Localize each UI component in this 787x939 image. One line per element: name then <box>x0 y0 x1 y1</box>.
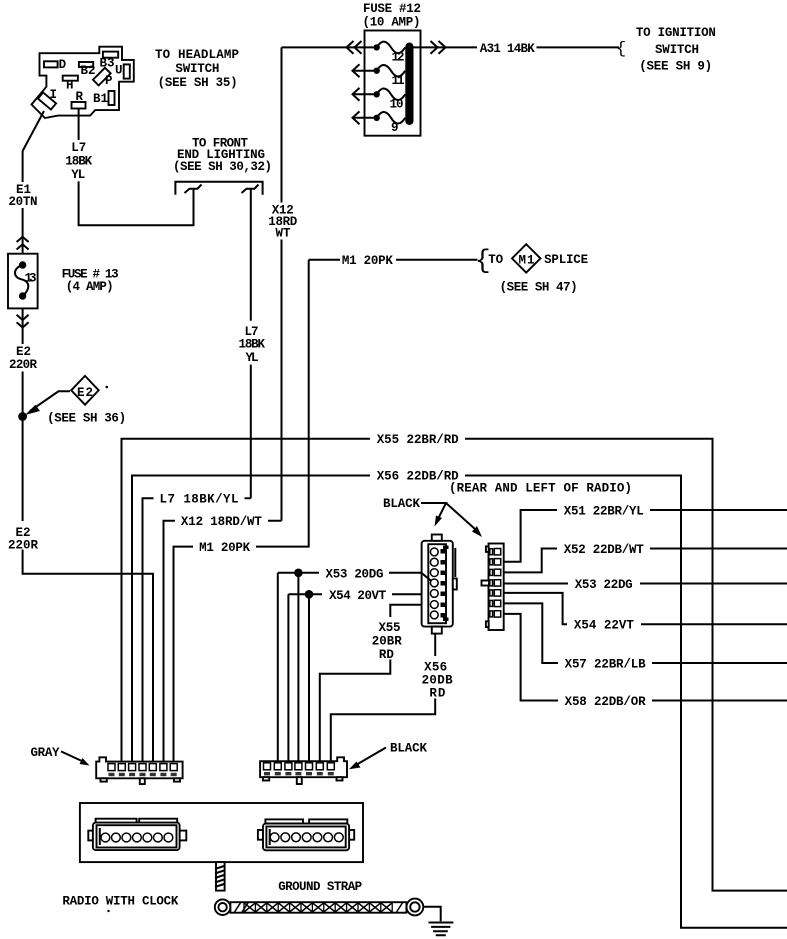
wire X55 22BR/RD net <box>122 439 787 891</box>
junction dot X54 <box>305 590 314 599</box>
headlamp pin R <box>72 90 86 109</box>
splice arrows left of fuse row 12 <box>347 41 362 54</box>
svg-text:SWITCH: SWITCH <box>655 43 699 57</box>
svg-text:M1: M1 <box>519 254 535 268</box>
label (SEE SH 47) <box>500 281 578 295</box>
arrow left of fuse row 10 <box>353 88 360 101</box>
radio right connector face top tabs <box>265 819 347 824</box>
headlamp switch connector body <box>32 47 134 118</box>
svg-text:9: 9 <box>391 121 399 135</box>
arrow BLACK to rear connector <box>446 503 482 537</box>
rear connector top-left notch <box>486 546 489 552</box>
gray connector body <box>96 757 182 778</box>
wire break symbol right <box>242 185 259 194</box>
label M1 20PK lower <box>193 539 256 555</box>
svg-text:X53 22DG: X53 22DG <box>575 578 633 592</box>
svg-text:BLACK: BLACK <box>390 742 427 756</box>
headlamp pin P <box>93 68 113 88</box>
radio right connector face ears <box>258 830 354 840</box>
label A31 14BK <box>480 42 535 56</box>
arrow left of fuse row 9 <box>353 111 360 124</box>
svg-text:WT: WT <box>276 226 291 240</box>
svg-text:SPLICE: SPLICE <box>544 253 588 267</box>
label X54 20VT <box>322 587 392 603</box>
svg-text:12: 12 <box>392 51 405 65</box>
svg-text:(4 AMP): (4 AMP) <box>66 280 114 294</box>
svg-text:TO: TO <box>488 253 503 267</box>
svg-text:E2: E2 <box>16 345 31 359</box>
label L7 18BK YL <box>65 141 92 182</box>
svg-text:L7 18BK/YL: L7 18BK/YL <box>160 493 239 507</box>
wire X57 net <box>504 603 787 663</box>
fuse element 10 <box>377 89 406 112</box>
svg-text:E2: E2 <box>77 386 93 400</box>
label L7 18BK/YL <box>154 491 245 507</box>
center connector side bump <box>453 548 457 590</box>
center connector terminals <box>430 546 448 622</box>
label BLACK bottom <box>390 742 427 756</box>
center connector top tab <box>432 535 442 541</box>
svg-text:X54 22VT: X54 22VT <box>574 619 634 633</box>
svg-text:RD: RD <box>429 686 445 700</box>
fuse block 12 box <box>365 31 421 136</box>
svg-text:X55: X55 <box>379 621 401 635</box>
ground screw <box>215 862 226 891</box>
svg-text:X56 22DB/RD: X56 22DB/RD <box>377 470 459 484</box>
headlamp pin B3 <box>100 52 119 71</box>
wire fuse12 row 10 <box>353 93 377 95</box>
headlamp pin D <box>44 58 67 72</box>
label X53 20DG <box>319 565 389 582</box>
label GRAY <box>31 746 60 760</box>
black connector body <box>260 757 347 777</box>
svg-text:U: U <box>115 64 123 78</box>
splice symbol E2 diamond <box>71 376 99 405</box>
svg-text:H: H <box>66 79 74 93</box>
fuse 13 terminal dot bottom <box>19 292 26 299</box>
headlamp pin U <box>115 64 130 79</box>
radio right connector face cavity <box>266 827 345 848</box>
label BLACK center <box>383 497 420 511</box>
svg-text:FUSE #12: FUSE #12 <box>363 2 421 16</box>
headlamp pin B2 <box>79 62 96 78</box>
svg-text:TO IGNITION: TO IGNITION <box>636 26 716 40</box>
svg-text:20BR: 20BR <box>372 634 402 648</box>
ground strap left eyelet <box>215 899 231 915</box>
arrow BLACK to center connector <box>421 503 446 527</box>
svg-text:18BK: 18BK <box>65 155 92 169</box>
junction dot E2 <box>18 412 27 421</box>
headlamp pin I <box>38 88 57 110</box>
wire X53 net <box>278 573 422 764</box>
label FUSE # 13 (4 AMP) <box>62 268 119 295</box>
label GROUND STRAP <box>278 880 362 894</box>
svg-text:11: 11 <box>392 74 405 88</box>
wire break symbol left <box>185 185 202 194</box>
wire X55 center stub <box>320 605 422 764</box>
stray mark near E2 splice <box>106 386 109 389</box>
svg-text:M1 20PK: M1 20PK <box>342 254 393 268</box>
svg-text:RD: RD <box>379 648 394 662</box>
inline connector chevrons above fuse 13 <box>17 237 29 250</box>
label M1 20PK top <box>342 254 393 268</box>
fuse 13 terminal dot top <box>19 261 26 268</box>
svg-text:B1: B1 <box>93 92 108 106</box>
svg-text:220R: 220R <box>9 358 37 372</box>
svg-text:X12 18RD/WT: X12 18RD/WT <box>181 515 262 529</box>
fuse element 12 <box>377 42 406 65</box>
wire E2 continues down <box>23 417 153 764</box>
label L7 18BK YL mid <box>239 325 266 365</box>
wire L7 long vertical <box>250 190 252 499</box>
svg-text:220R: 220R <box>8 539 38 553</box>
svg-text:A31 14BK: A31 14BK <box>480 42 535 56</box>
label E2 220R lower <box>8 526 38 553</box>
svg-text:10: 10 <box>390 97 404 111</box>
label X56 22DB/RD <box>370 467 465 484</box>
svg-text:B2: B2 <box>81 64 96 78</box>
wire E1 vertical <box>22 151 24 264</box>
label E1 20TN <box>9 183 38 209</box>
rear connector left tab <box>482 581 490 586</box>
fuse block 12 bus bar <box>405 43 413 126</box>
splice symbol M1 diamond <box>512 244 541 272</box>
wire X12 lower net <box>164 521 282 764</box>
arrow BLACK to black connector <box>349 748 386 770</box>
label X12 18RD WT <box>268 204 297 241</box>
radio left connector face terminals <box>101 833 173 842</box>
gray connector pins <box>108 764 177 777</box>
wire X51 net <box>504 510 787 562</box>
label X56 20DB RD <box>422 660 453 700</box>
rear radio connector body <box>489 544 504 631</box>
svg-text:13: 13 <box>25 272 37 286</box>
svg-text:{: { <box>616 40 626 59</box>
wire X12 vertical <box>281 47 283 520</box>
svg-text:RADIO WITH CLOCK: RADIO WITH CLOCK <box>62 895 178 909</box>
label X12 18RD/WT <box>175 513 268 529</box>
svg-text:(SEE SH 36): (SEE SH 36) <box>47 412 126 426</box>
label X53 22DG <box>568 576 640 592</box>
label RADIO WITH CLOCK <box>62 895 178 909</box>
fuse 13 element <box>15 265 37 296</box>
wire L7 from headlamp pin R <box>79 109 194 226</box>
label TO <box>488 253 503 267</box>
radio chassis box <box>80 803 363 862</box>
wire L7 lower net <box>143 498 251 763</box>
inline connector chevrons below fuse 13 <box>17 315 29 328</box>
fuse element 11 <box>377 65 406 88</box>
label E2 220R <box>9 345 37 372</box>
svg-text:(REAR AND LEFT OF RADIO): (REAR AND LEFT OF RADIO) <box>449 482 632 496</box>
black connector pins <box>264 763 335 776</box>
rear connector bottom-left notch <box>486 621 489 627</box>
label X55 22BR/RD <box>370 430 465 447</box>
svg-text:YL: YL <box>71 168 85 182</box>
center connector inner cavity <box>428 544 446 623</box>
svg-text:(SEE SH 30,32): (SEE SH 30,32) <box>173 160 272 174</box>
label X51 22BR/YL <box>557 502 650 518</box>
svg-text:X57 22BR/LB: X57 22BR/LB <box>565 657 646 671</box>
label FUSE #12 (10 AMP) <box>363 2 422 30</box>
headlamp pin B1 <box>93 91 115 106</box>
label X54 22VT <box>567 616 641 632</box>
wire fuse12 row 12 <box>282 46 377 48</box>
bracket to front end lighting <box>175 182 262 195</box>
junction dot X53 <box>294 569 303 578</box>
wire X56 center stub <box>331 634 435 764</box>
svg-text:(SEE SH 35): (SEE SH 35) <box>158 76 238 90</box>
svg-text:X56: X56 <box>424 660 447 674</box>
radio left connector face body <box>93 823 180 851</box>
rear connector terminals <box>490 549 501 618</box>
label SPLICE <box>544 253 588 267</box>
fuse terminal dot 10 <box>374 91 380 97</box>
svg-text:D: D <box>59 58 67 72</box>
wire X54 net <box>288 594 421 763</box>
label X58 22DB/OR <box>558 693 652 709</box>
fuse terminal dot 12 <box>374 44 380 50</box>
black connector bottom notches <box>263 777 343 780</box>
headlamp pin H <box>63 76 78 93</box>
center connector bottom tab <box>432 627 442 634</box>
svg-text:(10 AMP): (10 AMP) <box>363 16 421 30</box>
svg-text:GRAY: GRAY <box>31 746 60 760</box>
radio left connector face top tabs <box>96 819 178 824</box>
svg-text:(SEE SH 47): (SEE SH 47) <box>500 281 578 295</box>
splice arrows right on A31 wire <box>431 41 446 54</box>
svg-text:B3: B3 <box>100 57 115 71</box>
fuse terminal dot 11 <box>374 68 380 74</box>
stray mark under radio label <box>107 910 109 912</box>
ground strap braid <box>230 902 406 913</box>
svg-text:L7: L7 <box>71 141 86 155</box>
wire X54 right net <box>504 593 787 624</box>
off-page brace to ignition switch <box>616 40 626 59</box>
svg-text:20TN: 20TN <box>9 195 38 209</box>
svg-text:X54 20VT: X54 20VT <box>329 589 386 603</box>
label TO IGNITION SWITCH (SEE SH 9) <box>636 26 716 74</box>
wire X53 right net <box>504 583 787 585</box>
svg-text:YL: YL <box>246 351 259 365</box>
svg-text:SWITCH: SWITCH <box>175 62 219 76</box>
wire fuse12 row 11 <box>353 70 377 72</box>
wire M1 20PK to splice <box>309 259 478 261</box>
wire A31 14BK <box>414 46 620 48</box>
radio right connector face terminals <box>270 833 343 842</box>
arrow from E2 diamond to junction <box>25 391 70 415</box>
wire E2 below fuse 13 <box>22 308 24 416</box>
svg-text:BLACK: BLACK <box>383 497 420 511</box>
svg-text:X55 22BR/RD: X55 22BR/RD <box>377 433 459 447</box>
gray connector bottom notches <box>101 778 181 781</box>
wire to ground <box>423 907 440 922</box>
label (REAR AND LEFT OF RADIO) <box>449 482 632 496</box>
wire X52 net <box>504 549 787 573</box>
svg-text:M1 20PK: M1 20PK <box>199 541 250 555</box>
wire X53 entry diagonal <box>422 573 432 581</box>
fuse element 9 <box>377 112 406 135</box>
radio left connector face cavity <box>97 825 177 847</box>
wire X56 22DB/RD net <box>132 476 787 928</box>
radio right connector face body <box>263 824 349 851</box>
wire M1 lower net <box>174 260 309 764</box>
fuse 13 box <box>8 254 38 309</box>
svg-text:18BK: 18BK <box>239 338 266 352</box>
svg-text:X53 20DG: X53 20DG <box>326 568 384 582</box>
radio left connector face ears <box>88 831 186 841</box>
wire fuse12 row 9 <box>353 117 377 119</box>
svg-text:GROUND STRAP: GROUND STRAP <box>278 880 362 894</box>
arrow left of fuse row 11 <box>353 64 360 77</box>
label X57 22BR/LB <box>558 655 652 671</box>
svg-text:TO HEADLAMP: TO HEADLAMP <box>155 48 239 62</box>
svg-text:R: R <box>76 90 84 104</box>
black connector bottom tab <box>297 777 302 784</box>
svg-text:P: P <box>105 74 113 88</box>
label TO FRONT END LIGHTING (SEE SH 30,32) <box>173 137 272 174</box>
svg-text:(SEE SH 9): (SEE SH 9) <box>639 60 712 74</box>
arrow GRAY to connector <box>61 751 90 765</box>
svg-text:X51 22BR/YL: X51 22BR/YL <box>564 504 644 518</box>
fuse terminal dot 9 <box>374 115 380 121</box>
gray connector bottom tab <box>140 778 145 784</box>
ground symbol <box>429 923 454 936</box>
label TO HEADLAMP SWITCH (SEE SH 35) <box>155 48 239 90</box>
svg-text:X58 22DB/OR: X58 22DB/OR <box>565 695 646 709</box>
off-page brace at M1 splice <box>475 246 491 276</box>
label X52 22DB/WT <box>557 541 650 557</box>
ground strap right eyelet <box>407 899 424 916</box>
label X55 20BR RD <box>372 621 402 662</box>
label (SEE SH 36) <box>47 412 126 426</box>
center connector black body <box>422 541 453 627</box>
svg-text:I: I <box>50 88 58 102</box>
wire X58 net <box>504 614 787 701</box>
wire from pin I to E1 <box>23 111 44 151</box>
svg-text:X52 22DB/WT: X52 22DB/WT <box>564 543 644 557</box>
